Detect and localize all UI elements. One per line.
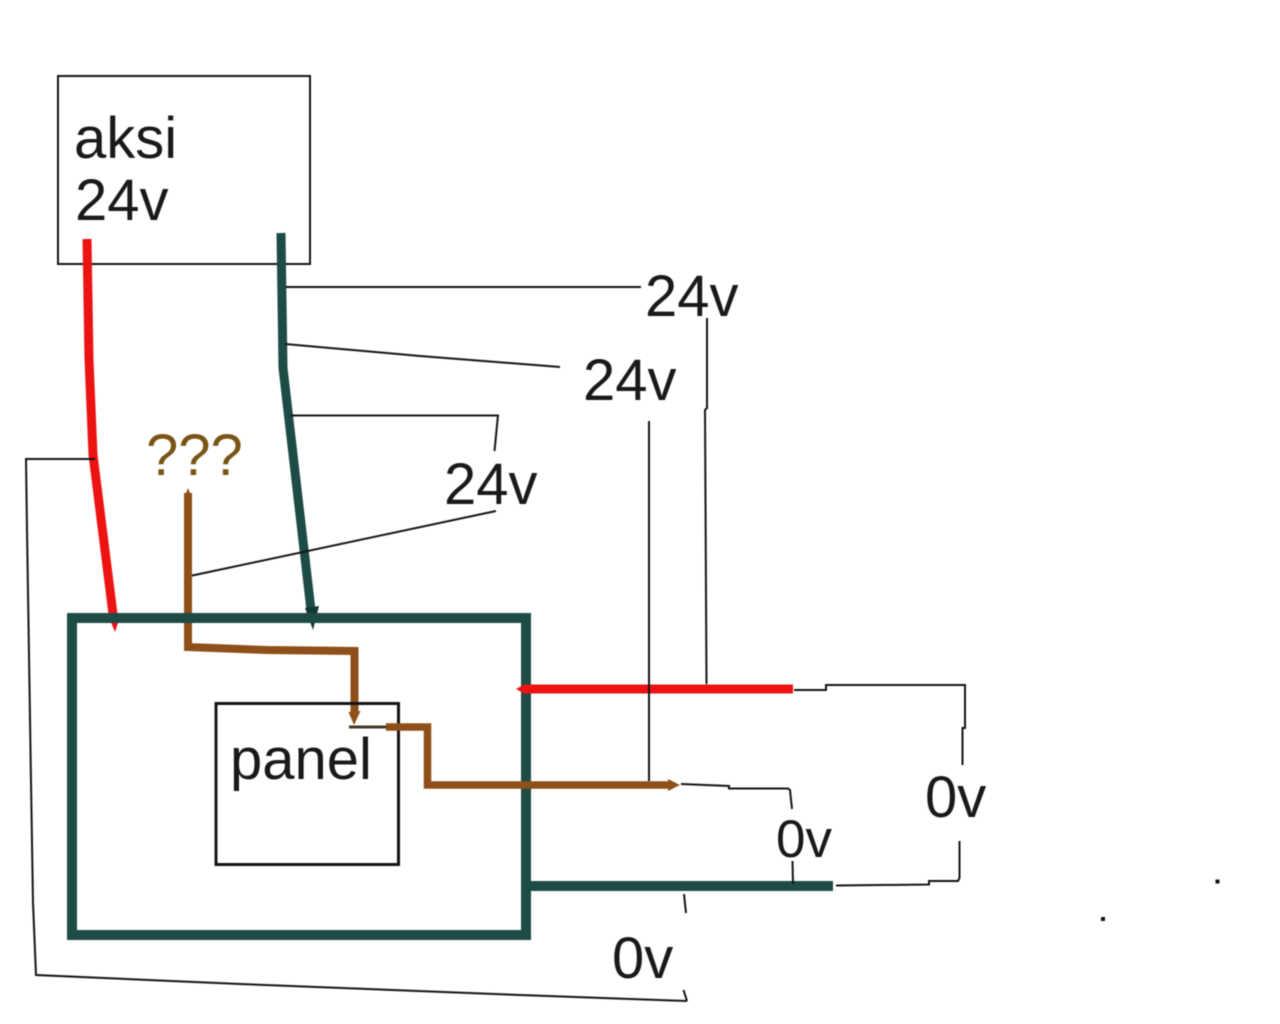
- callout line from teal wire to label 24v #3: [291, 415, 499, 417]
- svg-text:24v: 24v: [583, 348, 677, 413]
- wire teal: 0v feed from aksi box down to panel enclosure: [281, 233, 311, 610]
- speck dot 2: [1101, 917, 1105, 921]
- box U1: aksi 24v supply: [58, 76, 310, 264]
- wire brown: unknown wire from ??? into panel: [188, 493, 355, 715]
- diagonal callout from brown ??? wire up to label 24v #3: [190, 511, 496, 576]
- teal box: panel enclosure: [72, 618, 526, 935]
- arrowhead of teal feed wire: [305, 606, 319, 630]
- panel box: [216, 704, 399, 865]
- long left callout: from red wire area down around to 0v bottom: [26, 459, 687, 1001]
- svg-text:24v: 24v: [645, 264, 739, 329]
- arrowhead of brown wire at panel: [349, 711, 361, 725]
- tapered top tip of brown wire: [184, 488, 192, 498]
- svg-text:aksi: aksi: [74, 106, 177, 171]
- wire brown: from panel to outside (24v out): [386, 727, 670, 785]
- speck dot 1: [1216, 880, 1220, 884]
- callout from 0v mid down to teal output wire: [792, 861, 795, 884]
- wire red: 24v output to the right: [524, 685, 793, 694]
- callout from 0v right down to teal output wire: [836, 841, 960, 886]
- wire red: 24v feed from aksi box down to panel enclosure: [87, 239, 114, 622]
- callout vertical from 24v #1 down to red output wire: [705, 318, 707, 684]
- callout chain from brown output wire to label 0v mid: [681, 784, 792, 809]
- svg-text:panel: panel: [230, 727, 372, 792]
- svg-text:24v: 24v: [75, 168, 169, 233]
- callout line from teal wire to label 24v #1: [286, 286, 641, 288]
- tick from teal output wire toward 0v bottom: [684, 894, 686, 913]
- svg-text:0v: 0v: [925, 765, 986, 830]
- end tick of long callout: [684, 990, 688, 1001]
- callout chain from red output wire to label 0v right: [794, 685, 965, 765]
- callout vertical from 24v #2 down to brown output wire: [648, 421, 650, 781]
- wire brown: from panel to outside (24v out), thin dark start: [349, 726, 388, 729]
- arrowhead of brown output wire: [668, 779, 680, 791]
- arrowhead of red feed wire: [108, 614, 121, 632]
- svg-text:24v: 24v: [444, 452, 538, 517]
- callout line from teal wire to label 24v #2: [285, 344, 560, 367]
- svg-text:0v: 0v: [776, 810, 832, 869]
- wire teal: 0v output to the right: [524, 881, 833, 891]
- svg-text:???: ???: [146, 423, 243, 488]
- svg-text:0v: 0v: [612, 926, 673, 991]
- left arrow tip of red output wire: [516, 684, 526, 695]
